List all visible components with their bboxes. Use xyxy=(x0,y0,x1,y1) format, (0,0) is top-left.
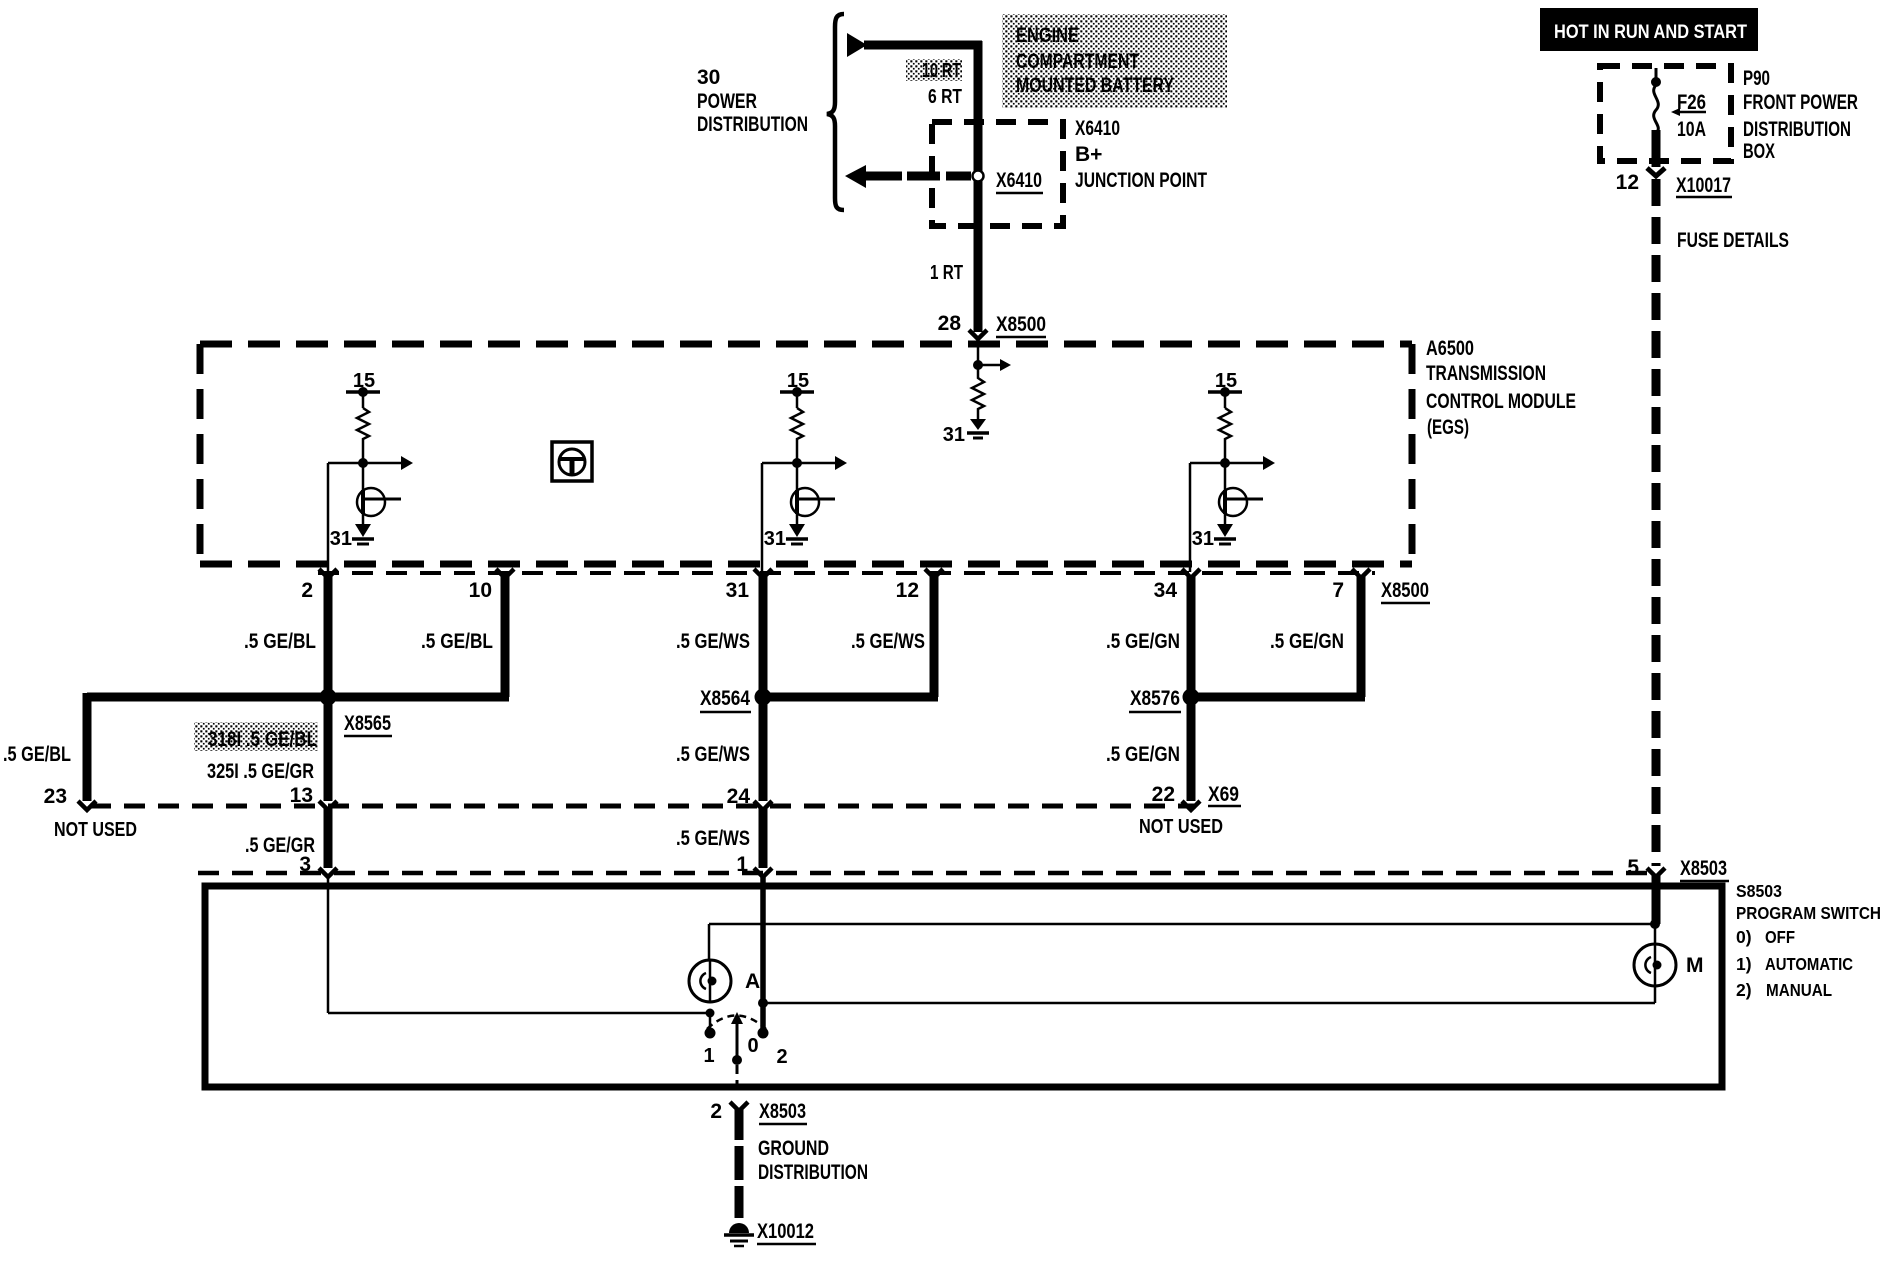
svg-text:NOT USED: NOT USED xyxy=(1139,816,1223,838)
pin 13 xyxy=(319,801,337,810)
svg-text:.5 GE/WS: .5 GE/WS xyxy=(676,630,750,653)
connector boundary X69 dashed line xyxy=(90,804,1196,809)
svg-text:DISTRIBUTION: DISTRIBUTION xyxy=(758,1161,868,1184)
junction box X6410 dashed xyxy=(932,122,1063,226)
node lower rail xyxy=(758,998,768,1008)
switch wiper arm xyxy=(736,1020,739,1058)
svg-text:X8503: X8503 xyxy=(1680,857,1727,880)
svg-text:.5 GE/BL: .5 GE/BL xyxy=(3,743,71,766)
svg-text:31: 31 xyxy=(726,579,750,602)
node X8564 xyxy=(755,689,772,706)
ground 31 leg 1 xyxy=(355,524,371,537)
switch wiper arc dashed xyxy=(707,1016,766,1030)
wire pin3 into switch xyxy=(327,877,330,1013)
pin 2 X8503 below switch xyxy=(730,1102,748,1111)
svg-text:P90: P90 xyxy=(1743,67,1770,90)
connector boundary X8503 dashed line xyxy=(198,871,1658,876)
svg-text:10: 10 xyxy=(469,579,492,602)
wire pin1 to contact 2 xyxy=(760,877,766,1031)
wire 10RT/6RT battery feed arrow xyxy=(847,33,867,57)
wire pin10 down xyxy=(501,576,510,697)
pin 3 xyxy=(319,868,337,877)
label 318I .5 GE/BL halftone xyxy=(194,722,318,751)
ground 31 leg 4 xyxy=(970,419,986,430)
resistor leg 3 xyxy=(1219,408,1231,441)
svg-text:F26: F26 xyxy=(1677,91,1706,114)
ground 31 leg 2 xyxy=(789,524,805,537)
wire pin7 down xyxy=(1357,576,1366,697)
svg-text:28: 28 xyxy=(938,312,962,335)
svg-text:MOUNTED BATTERY: MOUNTED BATTERY xyxy=(1016,74,1174,97)
svg-text:30: 30 xyxy=(697,66,720,89)
wire node leg 2 xyxy=(796,441,799,463)
svg-text:X8500: X8500 xyxy=(1381,579,1429,602)
svg-text:X8576: X8576 xyxy=(1130,687,1180,710)
wire pin5 into switch xyxy=(1652,875,1661,924)
pin 23 xyxy=(78,801,96,810)
module A6500 TCM dashed box xyxy=(200,341,1412,348)
svg-text:1): 1) xyxy=(1736,954,1752,974)
svg-text:5: 5 xyxy=(1627,856,1639,879)
pin 10 xyxy=(496,569,514,578)
wire 1RT vertical from battery xyxy=(974,41,983,332)
svg-text:CONTROL MODULE: CONTROL MODULE xyxy=(1426,390,1576,413)
resistor leg 2 xyxy=(791,408,803,441)
svg-text:FUSE DETAILS: FUSE DETAILS xyxy=(1677,229,1789,252)
wire left branch to pin23 xyxy=(87,693,328,702)
svg-text:318I .5 GE/BL: 318I .5 GE/BL xyxy=(208,728,317,751)
wire pin31 down xyxy=(759,576,768,801)
svg-text:.5 GE/BL: .5 GE/BL xyxy=(421,630,493,653)
svg-text:22: 22 xyxy=(1152,783,1175,806)
fuse F26 10A xyxy=(1655,68,1658,80)
svg-text:.5 GE/GN: .5 GE/GN xyxy=(1106,743,1180,766)
wire node leg 1 xyxy=(362,441,365,463)
svg-text:0: 0 xyxy=(747,1035,758,1057)
wire to pin leg 1 xyxy=(328,462,363,465)
svg-text:X6410: X6410 xyxy=(1075,117,1120,140)
svg-text:OFF: OFF xyxy=(1765,927,1795,947)
label 10 RT xyxy=(906,59,962,81)
lamp A xyxy=(689,960,731,1002)
resistor leg 4 xyxy=(972,365,984,419)
wire to pin leg 3 xyxy=(1190,462,1225,465)
wire ground distribution dashed xyxy=(735,1109,744,1140)
svg-text:X6410: X6410 xyxy=(996,169,1042,192)
svg-text:1 RT: 1 RT xyxy=(930,262,963,284)
svg-text:31: 31 xyxy=(943,424,965,446)
svg-text:TRANSMISSION: TRANSMISSION xyxy=(1426,362,1546,385)
pin 2 xyxy=(319,569,337,578)
wire to pin leg 2 xyxy=(762,462,797,465)
svg-text:.5 GE/BL: .5 GE/BL xyxy=(244,630,316,653)
lamp M xyxy=(1650,919,1660,929)
pin 24 xyxy=(754,801,772,810)
svg-text:.5 GE/GN: .5 GE/GN xyxy=(1106,630,1180,653)
svg-text:B+: B+ xyxy=(1075,143,1102,166)
svg-text:.5 GE/WS: .5 GE/WS xyxy=(676,743,750,766)
contact 2 xyxy=(758,1028,769,1039)
svg-text:M: M xyxy=(1686,954,1704,977)
banner HOT IN RUN AND START xyxy=(1540,8,1758,51)
wire wiper to pin2 dashed xyxy=(736,1065,739,1087)
svg-text:325I .5 GE/GR: 325I .5 GE/GR xyxy=(207,760,314,783)
svg-text:.5 GE/WS: .5 GE/WS xyxy=(851,630,925,653)
node below lamp A xyxy=(706,1009,715,1018)
svg-text:34: 34 xyxy=(1154,579,1178,602)
ground X10012 xyxy=(729,1223,749,1233)
pin 31 xyxy=(754,569,772,578)
wire node leg 3 xyxy=(1224,441,1227,463)
svg-text:1: 1 xyxy=(703,1045,714,1067)
svg-text:NOT USED: NOT USED xyxy=(54,819,137,841)
svg-text:FRONT POWER: FRONT POWER xyxy=(1743,91,1858,114)
label engine compartment mounted battery xyxy=(1002,14,1227,108)
pin 7 xyxy=(1352,569,1370,578)
svg-text:12: 12 xyxy=(896,579,919,602)
steering wheel icon xyxy=(552,442,592,481)
svg-text:A6500: A6500 xyxy=(1426,337,1474,360)
svg-text:DISTRIBUTION: DISTRIBUTION xyxy=(697,113,808,136)
svg-text:X69: X69 xyxy=(1208,783,1239,806)
contact 1 xyxy=(705,1028,716,1039)
svg-text:DISTRIBUTION: DISTRIBUTION xyxy=(1743,118,1851,141)
svg-text:AUTOMATIC: AUTOMATIC xyxy=(1765,954,1853,974)
node 28 resistor leg xyxy=(977,344,980,365)
brace 30 power distribution xyxy=(827,14,844,210)
pin 12 xyxy=(925,569,943,578)
svg-text:2: 2 xyxy=(710,1100,722,1123)
pin 12 X10017 xyxy=(1647,168,1665,176)
svg-text:X8503: X8503 xyxy=(759,1100,806,1123)
wire pin34 down xyxy=(1187,576,1196,801)
svg-text:31: 31 xyxy=(764,528,786,550)
switch S8503 box xyxy=(205,886,1722,1087)
svg-text:7: 7 xyxy=(1332,579,1344,602)
svg-text:COMPARTMENT: COMPARTMENT xyxy=(1016,50,1139,73)
svg-text:10A: 10A xyxy=(1677,118,1706,141)
svg-text:.5 GE/WS: .5 GE/WS xyxy=(676,827,750,850)
svg-text:X8565: X8565 xyxy=(344,712,391,735)
transistor Q1 xyxy=(362,463,365,524)
svg-text:2): 2) xyxy=(1736,980,1752,1000)
pin 1 xyxy=(754,868,772,877)
svg-text:MANUAL: MANUAL xyxy=(1766,980,1832,1000)
resistor leg 1 xyxy=(357,408,369,441)
svg-text:ENGINE: ENGINE xyxy=(1016,24,1079,47)
svg-text:31: 31 xyxy=(330,528,352,550)
pin 22 X69 xyxy=(1182,801,1200,810)
svg-text:X10017: X10017 xyxy=(1676,174,1731,197)
svg-text:POWER: POWER xyxy=(697,90,757,113)
transistor Q2 xyxy=(796,463,799,524)
svg-text:X8564: X8564 xyxy=(700,687,750,710)
wire fuse rail dashed xyxy=(1652,179,1661,866)
svg-text:S8503: S8503 xyxy=(1736,881,1782,901)
wire upper rail xyxy=(709,923,1655,926)
svg-text:(EGS): (EGS) xyxy=(1427,416,1469,439)
svg-text:.5 GE/GN: .5 GE/GN xyxy=(1270,630,1344,653)
node X8576 xyxy=(1183,689,1200,706)
wire pin10 to junction xyxy=(328,693,509,702)
svg-text:12: 12 xyxy=(1616,171,1639,194)
svg-text:2: 2 xyxy=(301,579,313,602)
svg-text:0): 0) xyxy=(1736,927,1752,947)
svg-text:X10012: X10012 xyxy=(757,1220,814,1243)
svg-text:23: 23 xyxy=(44,785,67,808)
svg-text:BOX: BOX xyxy=(1743,140,1775,163)
svg-text:JUNCTION POINT: JUNCTION POINT xyxy=(1075,169,1207,192)
pin 5 X8503 xyxy=(1647,868,1665,877)
svg-text:31: 31 xyxy=(1192,528,1214,550)
transistor Q3 xyxy=(1224,463,1227,524)
ground 31 leg 3 xyxy=(1217,524,1233,537)
svg-text:HOT IN RUN AND START: HOT IN RUN AND START xyxy=(1554,22,1747,43)
svg-text:X8500: X8500 xyxy=(996,313,1046,336)
wire arrow to power distribution xyxy=(845,165,866,188)
svg-text:2: 2 xyxy=(776,1046,787,1068)
svg-text:6 RT: 6 RT xyxy=(928,86,962,108)
wire pin12 down xyxy=(930,576,939,697)
wire pin2 down xyxy=(324,576,333,801)
fuse box P90 dashed xyxy=(1600,66,1731,161)
node X8565 xyxy=(320,689,337,706)
wire lower rail xyxy=(763,1002,1655,1005)
svg-text:PROGRAM SWITCH: PROGRAM SWITCH xyxy=(1736,903,1881,923)
svg-text:A: A xyxy=(745,970,760,993)
wire pin13 to pin3 xyxy=(324,808,333,868)
svg-text:GROUND: GROUND xyxy=(758,1137,829,1160)
node X6410 junction ring xyxy=(973,171,984,182)
connector X8500 strip dashed line xyxy=(318,571,1375,575)
pin 34 xyxy=(1182,569,1200,578)
svg-text:10 RT: 10 RT xyxy=(922,60,961,82)
